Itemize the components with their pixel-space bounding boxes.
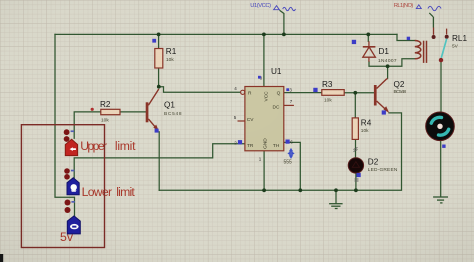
wire: Q1 emitter down to ground rail: [158, 132, 160, 191]
wire: R3 to Q2 base: [344, 92, 374, 94]
resistor R2: [91, 100, 120, 124]
wire: left vertical from rail down to 5v terminal: [55, 34, 75, 217]
pin marker 555 pin 3: [286, 88, 289, 91]
junction GND pin ground rail: [262, 188, 266, 192]
wire: R2 right to Q1 base: [120, 111, 146, 113]
resistor R1: [155, 47, 177, 68]
junction LED D2 ground rail: [354, 188, 358, 192]
wire: R1 bottom to Q1 collector junction: [158, 68, 160, 87]
wire: R1 top from rail: [158, 34, 160, 48]
relay switch RL1: [432, 17, 468, 63]
wire: ground stub on bottom rail: [335, 190, 337, 203]
junction U1(VCC) label rail: [282, 33, 286, 37]
wire: LED D2 bottom to ground rail: [355, 173, 357, 191]
wire: R4 top from base wire junction: [354, 93, 356, 118]
corner artifact: [0, 254, 3, 262]
junction R4 top / Q2 base: [353, 91, 357, 95]
wire: Q2 collector vertical: [387, 66, 389, 78]
wire: D1 top from rail junction: [367, 34, 369, 41]
pin marker 555 pin 2: [238, 140, 242, 144]
555 timer U1: [234, 67, 294, 166]
wire: D1 bottom / Q2 collector / relay coil bottom: [369, 59, 415, 67]
wire: top VCC rail: [55, 33, 397, 35]
pin marker R1 top: [152, 39, 156, 43]
terminal: Lower limit: [64, 168, 135, 199]
pin marker D2 cathode: [357, 173, 361, 177]
pin7 DC stub: [284, 104, 294, 106]
wire: motor bottom to ground: [440, 141, 442, 197]
terminal: Upper limit: [64, 129, 136, 155]
wire: 555 TR pin2 to Lower limit terminal: [74, 144, 245, 178]
resistor R4: [352, 118, 372, 139]
label RL1(NO): [394, 3, 441, 17]
motor / fan: [426, 112, 455, 141]
ground symbol 1: [329, 204, 343, 209]
junction Q1 collector: [157, 85, 161, 89]
pin marker motor bottom: [442, 145, 445, 148]
pin marker Q1 emitter: [155, 129, 159, 133]
wire: R2 left to Upper limit terminal: [74, 112, 101, 138]
wire: Q1 collector junction to 555 R pin (pin4): [159, 87, 241, 93]
terminal: 5v: [60, 200, 80, 245]
wire: rail step down to relay coil top: [397, 34, 415, 40]
transistor Q1: [146, 89, 182, 131]
pin marker D1 anode: [352, 40, 356, 44]
diode D1: [363, 41, 397, 64]
red tape rectangle: [21, 125, 104, 248]
ground symbol 2: [433, 197, 448, 203]
wire: 555 GND pin1 down to ground rail: [263, 151, 265, 191]
junction D1 top rail: [366, 33, 370, 37]
junction Q2 collector / D1 bottom: [386, 64, 390, 68]
pin marker relay coil top: [407, 37, 410, 40]
junction R1 top rail: [157, 33, 161, 37]
relay coil RL1: [415, 41, 427, 63]
junction TH drop ground rail: [298, 188, 302, 192]
resistor R3: [322, 80, 344, 103]
transistor Q2: [374, 79, 407, 113]
wire: bottom ground rail: [159, 113, 401, 190]
junction 555 VCC rail: [262, 33, 266, 37]
LED D2: [348, 148, 398, 182]
pin marker R3 left: [313, 88, 317, 92]
wire: 555 TH pin6 down to ground rail: [284, 142, 301, 190]
wire: 555 Q pin3 to R3: [284, 92, 322, 94]
label U1(VCC): [250, 3, 295, 11]
pin marker Q2 emitter: [382, 110, 386, 114]
junction ground symbol stub: [334, 188, 338, 192]
pin marker 555 pin 6: [286, 140, 290, 144]
move cursor diamond: [287, 148, 294, 159]
wire: U1(VCC) flying label drop: [280, 11, 284, 35]
pin marker 555 pin 8: [258, 76, 261, 79]
wire: relay switch to motor: [440, 62, 442, 111]
pin5 CV stub: [238, 120, 245, 122]
wire: R4 bottom to LED D2: [355, 139, 357, 158]
wire: 555 VCC pin8 up to rail: [263, 34, 265, 86]
